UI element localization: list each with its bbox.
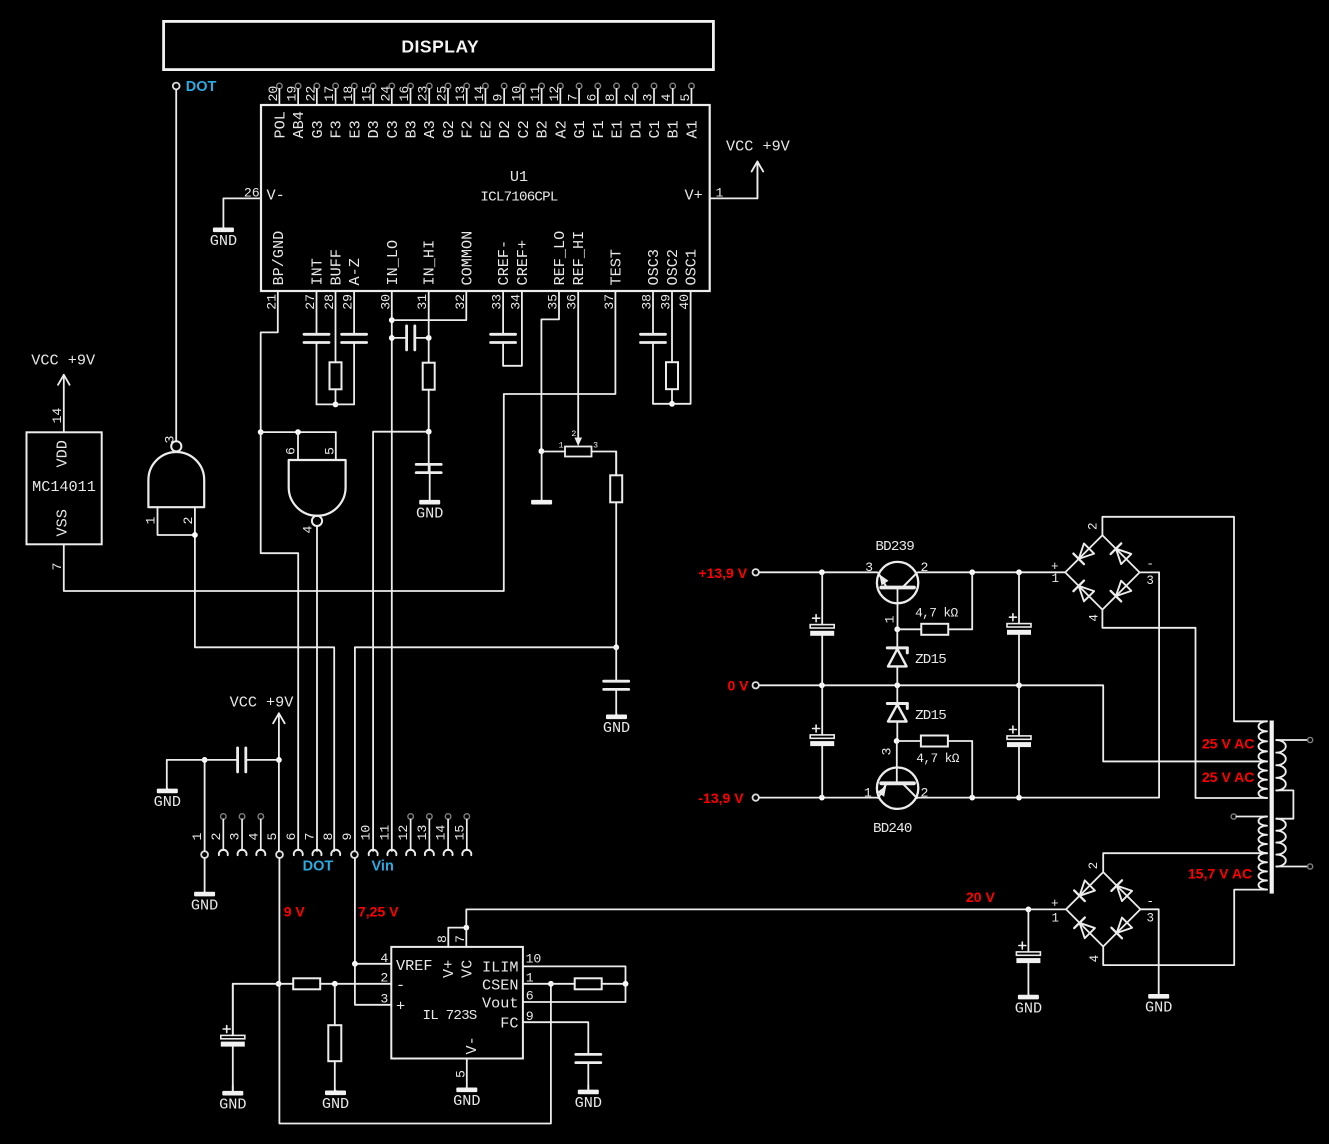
svg-text:7: 7 [566, 94, 581, 102]
connector pin 3 hook [238, 850, 247, 855]
junction rail1 resistor [969, 569, 975, 575]
DOT terminal [173, 83, 180, 90]
U1 top pin 11 B2 [528, 83, 552, 138]
connector pin 8 hook [331, 850, 340, 855]
svg-text:6: 6 [284, 833, 299, 841]
svg-text:GND: GND [219, 1095, 246, 1113]
svg-text:4: 4 [301, 526, 316, 534]
svg-text:15,7 V AC: 15,7 V AC [1188, 866, 1252, 882]
svg-text:7: 7 [50, 563, 65, 571]
U1 bottom pin 35 REF_LO labels [546, 231, 570, 310]
terminal -13,9V [753, 794, 759, 800]
svg-text:F1: F1 [590, 120, 608, 138]
wire 7V25 down from pin9 [354, 858, 356, 964]
svg-text:IL 723S: IL 723S [423, 1008, 477, 1024]
ground left of VCC cap [154, 789, 181, 812]
svg-text:IN_LO: IN_LO [384, 240, 402, 286]
wire pin21 node down to connector pin6 path [261, 432, 299, 850]
svg-text:2: 2 [622, 94, 637, 102]
svg-text:GND: GND [453, 1092, 480, 1110]
wire IL723S pin8 [448, 928, 466, 947]
svg-text:4: 4 [246, 833, 261, 841]
U1 top pin 25 G2 [434, 83, 458, 138]
svg-text:POL: POL [271, 111, 289, 138]
connector pin 15 open end [464, 814, 470, 820]
svg-text:C1: C1 [646, 120, 664, 138]
svg-text:DOT: DOT [186, 79, 217, 95]
svg-text:2: 2 [181, 517, 196, 525]
connector pin 15 hook [462, 850, 471, 855]
svg-text:17: 17 [322, 86, 337, 102]
svg-text:A3: A3 [421, 120, 439, 138]
svg-text:ZD15: ZD15 [915, 652, 946, 668]
connector pin 4 lead [260, 819, 262, 850]
terminal primary bottom [1308, 864, 1313, 869]
svg-text:V+: V+ [440, 960, 458, 978]
wire winding tap 25VAC [1103, 760, 1267, 762]
svg-text:5: 5 [322, 447, 337, 455]
connector pin 7 hook [312, 850, 321, 855]
svg-text:10: 10 [359, 825, 374, 841]
svg-text:OSC2: OSC2 [664, 249, 682, 285]
svg-text:20 V: 20 V [966, 889, 995, 905]
svg-text:GND: GND [154, 793, 181, 811]
regulator IL723S body [391, 947, 523, 1059]
junction trimmer net [613, 644, 619, 650]
ground at connector pin1 [191, 892, 218, 915]
svg-text:4: 4 [1088, 955, 1102, 963]
junction rail3 cap left [819, 795, 825, 801]
svg-text:10: 10 [526, 952, 542, 967]
svg-text:B1: B1 [665, 120, 683, 138]
wire CSEN pin1 [523, 983, 551, 985]
wire BD240 base lead [896, 741, 898, 783]
junction VREF 7V25 [352, 961, 358, 967]
svg-text:16: 16 [397, 86, 412, 102]
terminal 0V [753, 682, 759, 688]
wire connector pin5 through [278, 760, 280, 851]
svg-text:ZD15: ZD15 [915, 708, 946, 724]
capacitor VCC to GND [167, 748, 279, 772]
connector pin 1 through circle [201, 851, 208, 858]
svg-text:22: 22 [303, 86, 318, 102]
wire +13,9V rail left [759, 571, 877, 573]
svg-text:GND: GND [322, 1095, 349, 1113]
bridge rectifier B1 [1065, 535, 1139, 609]
wire U1 pin35 REF_LO [541, 291, 559, 451]
svg-text:CREF+: CREF+ [514, 240, 532, 286]
svg-text:3: 3 [1147, 912, 1155, 926]
wire gate inputs bus [261, 431, 336, 433]
capacitor pin30-pin31 [392, 326, 429, 350]
resistor under trimmer [610, 452, 622, 648]
svg-text:25: 25 [434, 86, 449, 102]
wire U1 pin32 COMMON to pin30 [392, 291, 467, 320]
svg-text:ICL7106CPL: ICL7106CPL [480, 190, 557, 206]
ground under divider resistor [322, 1091, 349, 1114]
connector pin 3 open end [239, 814, 245, 820]
svg-text:14: 14 [434, 825, 449, 841]
wire pin33 to pin34 [503, 291, 522, 366]
svg-text:-: - [1146, 558, 1154, 572]
svg-text:28: 28 [322, 294, 337, 310]
U1 bottom pin 31 IN_HI labels [415, 240, 439, 310]
wire zener1 top lead [896, 629, 898, 647]
svg-text:-: - [1147, 895, 1155, 909]
U1 top pin 5 A1 [678, 83, 702, 138]
svg-text:13: 13 [415, 825, 430, 841]
svg-text:1: 1 [1052, 572, 1060, 586]
connector pin 14 open end [445, 814, 451, 820]
svg-text:2: 2 [571, 429, 576, 439]
svg-text:VDD: VDD [54, 440, 72, 467]
capacitor 20V electrolytic [1016, 909, 1040, 994]
svg-text:3: 3 [641, 94, 656, 102]
capacitor electrolytic at 9V node [221, 984, 245, 1091]
svg-text:V-: V- [267, 187, 285, 205]
U1 top pin 4 B1 [659, 83, 683, 138]
junction pin31 cap [426, 335, 432, 341]
wire zener1 bottom lead [896, 666, 898, 685]
svg-text:E3: E3 [346, 120, 364, 138]
svg-text:2: 2 [921, 560, 929, 575]
transistor BD240 [877, 768, 918, 809]
wire B1 pin2 to primary top [1102, 517, 1267, 722]
connector pin 9 number [340, 833, 355, 841]
svg-text:7: 7 [302, 833, 317, 841]
junction pins7-8 [463, 925, 469, 931]
junction rail3 cap right [1016, 795, 1022, 801]
wire 9V node to left cap [233, 984, 279, 1035]
resistor CSEN [551, 978, 626, 989]
display box [164, 21, 714, 69]
U1 bottom pin 36 REF_HI labels [564, 231, 588, 310]
U1 top pin 22 G3 [303, 83, 327, 138]
connector pin 14 hook [444, 850, 453, 855]
junction pin21/gate node [258, 429, 264, 435]
svg-text:VCC +9V: VCC +9V [31, 352, 96, 370]
connector pin 11 number [377, 825, 392, 841]
svg-text:8: 8 [321, 833, 336, 841]
svg-text:MC14011: MC14011 [32, 478, 96, 496]
connector pin 6 number [284, 833, 299, 841]
svg-text:14: 14 [472, 86, 487, 102]
svg-text:Vout: Vout [482, 995, 518, 1013]
U1 top pin 15 D3 [360, 83, 384, 138]
wire +13,9V rail right [918, 571, 1065, 573]
wire DOT to gate U2A output [175, 90, 177, 442]
diode ZD15 lower [887, 704, 907, 722]
U1 top pin 10 C2 [509, 83, 533, 138]
U1 bottom pin 30 IN_LO labels [378, 240, 402, 310]
connector pin 3 lead [241, 819, 243, 850]
bridge rectifier B2 diode bottom-right [1111, 917, 1132, 938]
junction BD240 base node [894, 738, 900, 744]
wire 7V25 rail down [354, 647, 356, 851]
capacitor at pin38 OSC3 [641, 291, 666, 404]
svg-text:23: 23 [416, 86, 431, 102]
svg-text:2: 2 [921, 785, 929, 800]
svg-text:2: 2 [1087, 522, 1101, 530]
power VCC +9V at connector pin5 [230, 693, 295, 760]
svg-text:V-: V- [463, 1036, 481, 1054]
svg-text:19: 19 [285, 86, 300, 102]
wire zener2 bottom lead [896, 722, 898, 742]
connector pin 8 number [321, 833, 336, 841]
svg-text:9: 9 [340, 833, 355, 841]
bridge rectifier B2 [1066, 872, 1140, 946]
svg-text:15: 15 [452, 825, 467, 841]
capacitor trimmer net to GND [604, 647, 629, 714]
svg-text:4: 4 [659, 94, 674, 102]
svg-text:VC: VC [459, 960, 477, 978]
svg-text:VSS: VSS [54, 509, 72, 536]
svg-text:9: 9 [491, 94, 506, 102]
svg-text:COMMON: COMMON [458, 231, 476, 286]
svg-text:9 V: 9 V [284, 904, 306, 920]
svg-text:ILIM: ILIM [482, 959, 518, 977]
capacitor IN_HI to GND [416, 432, 441, 473]
connector pin 2 hook [219, 850, 228, 855]
wire ILIM pin10 [523, 966, 626, 983]
svg-text:10: 10 [509, 86, 524, 102]
svg-text:G1: G1 [571, 120, 589, 138]
svg-text:-13,9 V: -13,9 V [698, 790, 744, 806]
wire B1 pin4 to winding2 bottom [1102, 610, 1267, 798]
svg-text:7,25 V: 7,25 V [358, 904, 399, 920]
U1 bottom pin 32 COMMON labels [453, 231, 477, 310]
svg-text:VCC +9V: VCC +9V [230, 693, 295, 711]
ground under FC cap [575, 1085, 602, 1112]
U1 top pin 18 E3 [341, 83, 365, 138]
ground at IL723S pin5 [453, 1058, 480, 1110]
wire trimmer pin1 [541, 451, 565, 453]
svg-text:VCC +9V: VCC +9V [726, 138, 791, 156]
svg-text:15: 15 [360, 86, 375, 102]
U1 top pin 6 F1 [584, 83, 608, 138]
U1 top pin 9 D2 [491, 83, 515, 138]
wire 9V rail bottom run [279, 984, 551, 1124]
wire U1 pin37 TEST to MC14011 pin7 [64, 291, 616, 591]
svg-text:D3: D3 [365, 120, 383, 138]
svg-text:3: 3 [162, 436, 177, 444]
svg-text:12: 12 [396, 825, 411, 841]
ground under trimmer cap [603, 714, 630, 737]
wire B2 pin4 to winding4 bottom [1103, 890, 1267, 966]
svg-text:VREF: VREF [396, 957, 432, 975]
BD239 emitter arrow [879, 574, 888, 585]
svg-text:GND: GND [603, 719, 630, 737]
junction pin31 node [426, 429, 432, 435]
logic IC MC14011 body [27, 432, 102, 544]
junction rail1 cap right [1016, 569, 1022, 575]
U1 bottom pin 29 A-Z labels [341, 258, 365, 310]
svg-text:REF_HI: REF_HI [570, 231, 588, 286]
connector pin 7 number [302, 833, 317, 841]
wire IL723S pin7 to 20V [466, 909, 1028, 947]
svg-text:6: 6 [584, 94, 599, 102]
wire -13,9V rail left [759, 797, 877, 799]
svg-text:0 V: 0 V [728, 677, 750, 693]
transformer winding 25VAC upper [1259, 721, 1268, 761]
ground under left electrolytic [219, 1085, 246, 1113]
wire trimmer pin3 [592, 452, 617, 476]
connector pin 10 number [359, 825, 374, 841]
nand gate U2B [289, 460, 346, 526]
junction pin30/pin32 [389, 317, 395, 323]
svg-text:1: 1 [864, 785, 872, 800]
wire gate U2A input2 [194, 507, 196, 535]
resistor at pin31 IN_HI [423, 291, 435, 432]
junction gate U2A inputs [192, 532, 198, 538]
svg-text:D1: D1 [627, 120, 645, 138]
resistor 4,7k upper [897, 624, 972, 635]
bridge rectifier B2 diode top-left [1074, 880, 1095, 901]
svg-text:5: 5 [678, 94, 693, 102]
U1 top pin 13 F2 [453, 83, 477, 138]
wire connector pin1 upper [204, 760, 206, 851]
connector pin 14 number [434, 825, 449, 841]
wire connector pin1 lower [204, 858, 206, 892]
wire pin31 node to connector pin10 [373, 432, 429, 851]
svg-text:11: 11 [377, 825, 392, 841]
terminal +13,9V [753, 569, 759, 575]
svg-text:25 V AC: 25 V AC [1202, 736, 1254, 752]
wire U1 pin26 to GND [223, 198, 261, 227]
U1 bottom pin 40 OSC1 labels [677, 249, 701, 310]
wire IL723S pin3 [355, 964, 391, 1005]
wire U1 pin30 IN_LO [391, 291, 393, 851]
connector pin 11 hook [387, 850, 396, 855]
connector pin 12 hook [406, 850, 415, 855]
svg-text:BP/GND: BP/GND [270, 231, 288, 286]
svg-text:2: 2 [1087, 862, 1101, 870]
capacitor electrolytic rail1-0V left [810, 572, 834, 685]
ground at U1 pin 26 [210, 227, 237, 250]
wire U1 pin40 OSC1 [672, 291, 691, 404]
svg-text:GND: GND [210, 232, 237, 250]
U1 top pin 7 G1 [566, 83, 590, 138]
connector pin 3 number [228, 833, 243, 841]
junction pin1 gnd cap [202, 757, 208, 763]
svg-text:CSEN: CSEN [482, 976, 518, 994]
capacitor at pin29 A-Z [342, 291, 367, 404]
transformer winding 15VAC lower [1259, 853, 1268, 889]
U1 bottom pin 34 CREF+ labels [508, 240, 532, 310]
connector pin 13 number [415, 825, 430, 841]
svg-text:GND: GND [575, 1094, 602, 1112]
wire primary top lead [1276, 739, 1307, 741]
svg-text:TEST: TEST [607, 249, 625, 285]
nand gate U2A [148, 441, 204, 507]
bridge rectifier B1 diode bottom-left [1073, 581, 1094, 602]
svg-text:3: 3 [593, 441, 598, 451]
transistor BD239 [877, 562, 918, 603]
connector pin 1 number [190, 833, 205, 841]
bridge rectifier B2 diode top-right [1111, 880, 1132, 901]
svg-text:G3: G3 [309, 120, 327, 138]
wire 4,7k upper to rail1 [971, 572, 973, 629]
junction resistor right [623, 981, 629, 987]
U1 top pin 20 POL [266, 83, 290, 138]
transformer primary A [1276, 740, 1286, 790]
terminal 15VAC top [1231, 814, 1236, 819]
capacitor FC to GND [576, 1050, 601, 1089]
U1 top pin 17 F3 [322, 83, 346, 138]
transformer primary B [1276, 819, 1286, 867]
svg-text:AB4: AB4 [290, 111, 308, 138]
transformer winding 25VAC lower [1259, 761, 1268, 798]
svg-text:REF_LO: REF_LO [551, 231, 569, 286]
wire U1 pin1 to VCC [710, 162, 758, 198]
wire gate U2A inputs to left rail [195, 535, 334, 851]
svg-text:GND: GND [1015, 999, 1042, 1017]
svg-text:OSC3: OSC3 [645, 249, 663, 285]
junction pins27-29 [333, 402, 339, 408]
svg-text:F3: F3 [328, 120, 346, 138]
svg-text:+: + [1051, 897, 1059, 911]
svg-text:25 V AC: 25 V AC [1202, 769, 1254, 785]
svg-text:1: 1 [559, 441, 564, 451]
junction BD239 base node [894, 626, 900, 632]
wire IL723S pin4 VREF [355, 963, 391, 965]
U1 top pin 16 B3 [397, 83, 421, 138]
junction rail2 zener [894, 682, 900, 688]
bridge rectifier B1 diode top-left [1073, 543, 1094, 564]
potentiometer trimmer [559, 429, 599, 457]
svg-text:14: 14 [50, 408, 65, 424]
wire -13,9V rail right [918, 572, 1159, 797]
connector pin 4 open end [258, 814, 264, 820]
svg-text:1: 1 [1052, 912, 1060, 926]
ground at trimmer pin1 [531, 451, 552, 504]
wire pin29 bottom [336, 403, 355, 405]
resistor at pin39 OSC2 [666, 291, 678, 404]
wire 4,7k lower to rail3 [971, 741, 973, 798]
junction CSEN [548, 981, 554, 987]
svg-text:4,7 kΩ: 4,7 kΩ [915, 605, 958, 620]
wire BD239 base lead [897, 588, 899, 629]
U1 top pin 19 AB4 [285, 83, 309, 138]
connector pin 14 lead [447, 819, 449, 850]
connector pin 4 hook [256, 850, 265, 855]
connector pin 13 lead [428, 819, 430, 850]
svg-text:4: 4 [1088, 614, 1102, 622]
svg-text:GND: GND [1145, 999, 1172, 1017]
svg-text:IN_HI: IN_HI [421, 240, 439, 286]
junction 9V resistor [276, 981, 282, 987]
diode ZD15 upper [887, 648, 907, 667]
wire 20V to bridge1 plus [1028, 908, 1065, 910]
U1 top pin 12 A2 [547, 83, 571, 138]
connector pin 6 hook [294, 850, 303, 855]
wire B2 pin2 to winding34 tap [1103, 853, 1264, 872]
U1 bottom pin 37 TEST labels [602, 249, 626, 310]
resistor pin2 node to GND [328, 984, 341, 1091]
ground under IN_HI cap [416, 465, 443, 523]
svg-text:24: 24 [378, 86, 393, 102]
wire trimmer net to 7V25 rail [355, 646, 616, 648]
wire U1 pin21 BP/GND [261, 291, 278, 432]
wire 0V rail [759, 685, 1264, 761]
capacitor electrolytic rail1-0V right [1007, 572, 1031, 685]
wire pin38 bottom [653, 403, 672, 405]
junction rail3 resistor [969, 795, 975, 801]
wire U1 pin36 REF_HI [577, 291, 579, 438]
transformer core [1270, 721, 1274, 894]
junction gate U2B pin6 [295, 429, 301, 435]
svg-text:B2: B2 [534, 120, 552, 138]
